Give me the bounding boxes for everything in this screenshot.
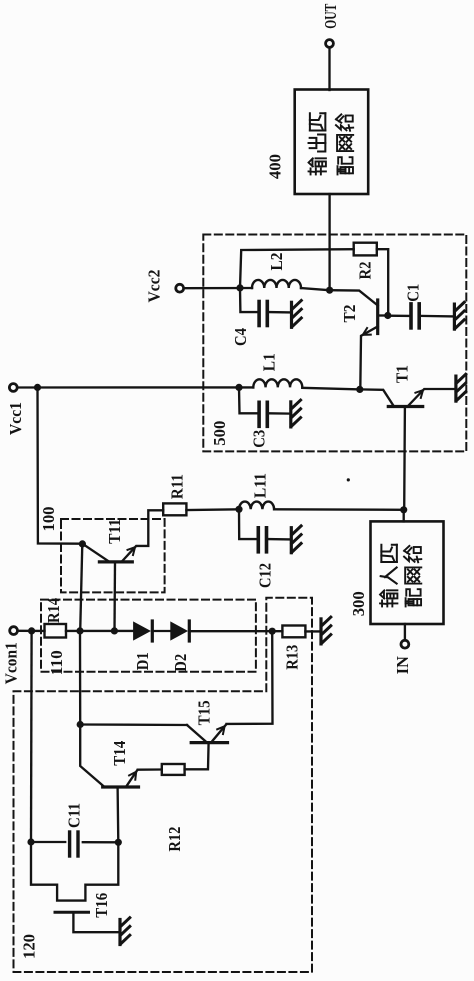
svg-text:R12: R12 xyxy=(165,827,184,852)
svg-text:L2: L2 xyxy=(267,253,286,271)
wire input node to box 300 xyxy=(403,510,405,522)
node T2 base node xyxy=(384,312,391,319)
wire R11 to L11 xyxy=(186,508,239,511)
svg-text:IN: IN xyxy=(393,656,412,675)
wire D2 node down to T15 emitter wire xyxy=(227,631,273,724)
svg-text:100: 100 xyxy=(39,507,58,532)
diode D2 xyxy=(171,622,187,640)
wire Vcc1 to L1 xyxy=(18,386,254,388)
node T1 collector node xyxy=(356,386,363,393)
svg-text:T2: T2 xyxy=(340,305,359,323)
svg-text:120: 120 xyxy=(20,934,39,959)
wire R12 to T14 emitter xyxy=(138,768,162,771)
wire R2 to T2 base node xyxy=(377,249,388,315)
capacitor C1 xyxy=(409,304,413,328)
transistor T11 base bar xyxy=(99,560,132,563)
wire T15 base lead xyxy=(185,743,209,770)
inductor L11 xyxy=(239,502,274,510)
svg-text:R11: R11 xyxy=(168,474,187,499)
svg-text:D1: D1 xyxy=(133,652,152,670)
wire T14 emitter xyxy=(126,770,137,787)
svg-text:T11: T11 xyxy=(105,519,124,544)
svg-text:Vcon1: Vcon1 xyxy=(2,642,21,684)
wire T16 gate to ground xyxy=(73,914,118,933)
wire T11 base lead xyxy=(113,562,116,631)
wire Vcc2 to L2 xyxy=(184,287,252,290)
capacitor C12 xyxy=(256,528,260,552)
wire C11 right xyxy=(83,841,119,843)
svg-text:L11: L11 xyxy=(251,473,270,498)
wire T1 base lead xyxy=(403,407,406,510)
svg-text:110: 110 xyxy=(47,650,66,675)
wire R14 node down to T14 node xyxy=(79,631,82,725)
svg-text:L1: L1 xyxy=(260,353,279,371)
svg-text:C12: C12 xyxy=(256,563,275,588)
inductor L2 xyxy=(252,280,301,288)
node C11 left junction xyxy=(27,838,34,845)
svg-text:OUT: OUT xyxy=(321,3,340,28)
terminal Vcc2 xyxy=(176,284,184,292)
wire T14 collector xyxy=(80,725,104,788)
wire box 400 to node A xyxy=(328,194,330,290)
node T11 collector junction xyxy=(79,540,86,547)
block 400 output matching network box xyxy=(295,90,369,195)
wire C11 left xyxy=(31,841,65,843)
arrow T14 emitter xyxy=(129,772,136,780)
wire T1 emitter xyxy=(408,389,456,407)
ground at C12 xyxy=(290,528,293,553)
ground at T16 xyxy=(118,920,121,945)
text 输入匹配网络 in box 300 xyxy=(380,590,397,606)
arrow T15 emitter xyxy=(217,726,224,734)
ground at T1 emitter xyxy=(454,376,457,401)
wire T11 collector xyxy=(82,544,109,562)
wire T14 base lead xyxy=(116,787,119,842)
wire L2 to node A xyxy=(301,288,330,290)
wire T2 emitter xyxy=(360,327,377,390)
transistor T14 base bar xyxy=(103,785,139,788)
text 输出匹配网络 in box 400 xyxy=(309,158,326,174)
ground at C4 xyxy=(290,302,293,327)
svg-text:C3: C3 xyxy=(249,430,268,448)
dashed box 120 outline xyxy=(14,598,313,972)
svg-text:R14: R14 xyxy=(44,598,63,623)
wire C1 to ground xyxy=(421,315,453,318)
wire Vcon1 node down to C11 xyxy=(30,631,33,842)
terminal OUT xyxy=(326,40,334,48)
node speck xyxy=(347,478,350,481)
node input node xyxy=(400,506,407,513)
node C11 right junction xyxy=(115,839,122,846)
arrow T2 emitter xyxy=(363,328,371,335)
wire T2 collector xyxy=(330,290,378,305)
diode D1 xyxy=(134,622,150,640)
dashed box 500 xyxy=(203,235,466,452)
svg-text:C1: C1 xyxy=(403,284,422,302)
wire T11 emitter xyxy=(122,510,164,562)
svg-text:C4: C4 xyxy=(231,328,250,346)
svg-text:Vcc1: Vcc1 xyxy=(6,402,25,435)
svg-text:T1: T1 xyxy=(393,365,412,383)
terminal Vcc1 xyxy=(9,384,17,392)
wire Vcon1 to R14 xyxy=(18,630,45,632)
capacitor C4 xyxy=(257,302,261,326)
node Vcon1 junction xyxy=(28,627,35,634)
wire junction to T15 collector xyxy=(80,723,187,726)
node Vcc1 branch junction xyxy=(34,384,41,391)
dashed box 110 xyxy=(41,600,256,672)
node R14-D1 junction xyxy=(76,627,83,634)
wire D1 to D2 xyxy=(152,630,171,632)
wire L11 node down to C12 xyxy=(239,509,257,539)
wire C4 to ground xyxy=(269,311,290,314)
node Vcc2-L2 junction xyxy=(236,284,243,291)
svg-text:500: 500 xyxy=(210,421,229,446)
inductor L1 xyxy=(253,379,302,387)
wire R13 to ground xyxy=(305,630,319,632)
node D2-R13 junction xyxy=(269,628,276,635)
arrow T11 emitter xyxy=(128,547,136,555)
transistor T15 base bar xyxy=(191,741,227,744)
svg-text:C11: C11 xyxy=(65,803,84,828)
wire OUT terminal to output matching network xyxy=(328,48,330,90)
wire R14 to D1 xyxy=(66,630,134,632)
transistor T2 base bar xyxy=(376,300,379,334)
node L11 left junction xyxy=(235,506,242,513)
node T14-T15 wire junction xyxy=(77,721,84,728)
svg-text:Vcc2: Vcc2 xyxy=(145,270,164,303)
wire T15 emitter xyxy=(213,725,226,741)
resistor R11 xyxy=(163,503,186,515)
resistor R2 xyxy=(354,243,377,256)
wire branch from Vcc2 node up to R2 xyxy=(240,249,354,288)
ground at C1 xyxy=(453,304,456,329)
wire T1 collector xyxy=(360,389,394,406)
capacitor C3 xyxy=(257,402,261,426)
wire T2 base node to C1 xyxy=(388,315,410,318)
svg-text:D2: D2 xyxy=(171,654,190,672)
transistor T16 channel structure xyxy=(31,842,118,901)
wire L1 node down to C3 xyxy=(239,387,257,413)
wire T11 collector junction down to R14-D1 junction xyxy=(80,544,82,631)
dashed box 100 xyxy=(61,519,165,592)
resistor R12 xyxy=(162,764,185,775)
wire C12 to ground xyxy=(268,538,290,541)
arrow T1 emitter xyxy=(415,390,423,398)
transistor T16 gate bar xyxy=(55,911,89,914)
ground at C3 xyxy=(289,402,292,427)
wire L11 to T1 base node xyxy=(274,508,404,511)
transistor T1 base bar xyxy=(388,405,422,408)
node T11 base junction xyxy=(111,627,118,634)
wire box 300 to IN terminal xyxy=(404,624,406,640)
resistor R14 xyxy=(45,624,67,638)
svg-text:T16: T16 xyxy=(92,893,111,918)
svg-text:400: 400 xyxy=(266,154,285,179)
svg-text:T14: T14 xyxy=(110,740,129,765)
wire L1 to T1 collector node xyxy=(302,388,360,390)
resistor R13 xyxy=(282,626,305,638)
ground at R13 xyxy=(319,619,322,644)
wire T15 collector xyxy=(187,725,206,741)
wire C3 to ground xyxy=(269,412,289,415)
svg-text:R2: R2 xyxy=(356,262,375,280)
node A collector node of T2 xyxy=(326,287,333,294)
node L1 left junction xyxy=(235,384,242,391)
block 300 input matching network box xyxy=(371,521,444,624)
capacitor C11 xyxy=(68,832,71,856)
terminal IN xyxy=(401,640,409,648)
wire Vcc1 branch down-left xyxy=(38,387,83,543)
svg-text:R13: R13 xyxy=(282,645,301,670)
svg-text:300: 300 xyxy=(349,591,368,616)
svg-text:T15: T15 xyxy=(194,700,213,725)
wire Vcc2 node down to C4 xyxy=(240,288,257,312)
wire T2 base lead xyxy=(378,314,388,316)
terminal Vcon1 xyxy=(10,627,18,635)
wire D2 to R13 xyxy=(189,630,282,632)
